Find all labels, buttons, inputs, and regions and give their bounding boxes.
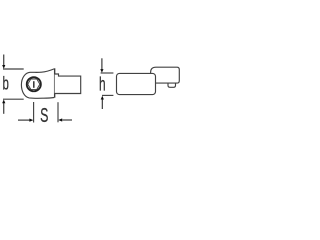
side view: head disc — [151, 67, 180, 83]
dimension S : extension lines — [33, 102, 35, 123]
dimension b : extension lines — [3, 68, 24, 70]
dimension b : bottom arrow — [3, 103, 5, 114]
svg-text:S: S — [40, 104, 48, 127]
bell rim — [54, 68, 56, 97]
side view: pin boss (bump) — [168, 81, 176, 87]
dimension h : extension lines — [101, 72, 114, 74]
svg-text:h: h — [99, 75, 106, 95]
svg-text:b: b — [3, 74, 9, 94]
dimension b : top arrow — [3, 55, 5, 66]
hexagon hole — [28, 79, 40, 89]
dimension S : right arrow — [62, 119, 72, 121]
dimension h : top arrow — [101, 58, 103, 69]
hex ring (bold circle) — [27, 77, 41, 91]
ring-end body outline (front view) — [21, 69, 54, 98]
dimension h : bottom arrow — [101, 99, 103, 109]
side view: tang body — [117, 73, 156, 94]
center mark — [33, 81, 35, 88]
dimension S : left arrow — [18, 119, 30, 121]
square-drive tang (front view) — [55, 74, 81, 94]
